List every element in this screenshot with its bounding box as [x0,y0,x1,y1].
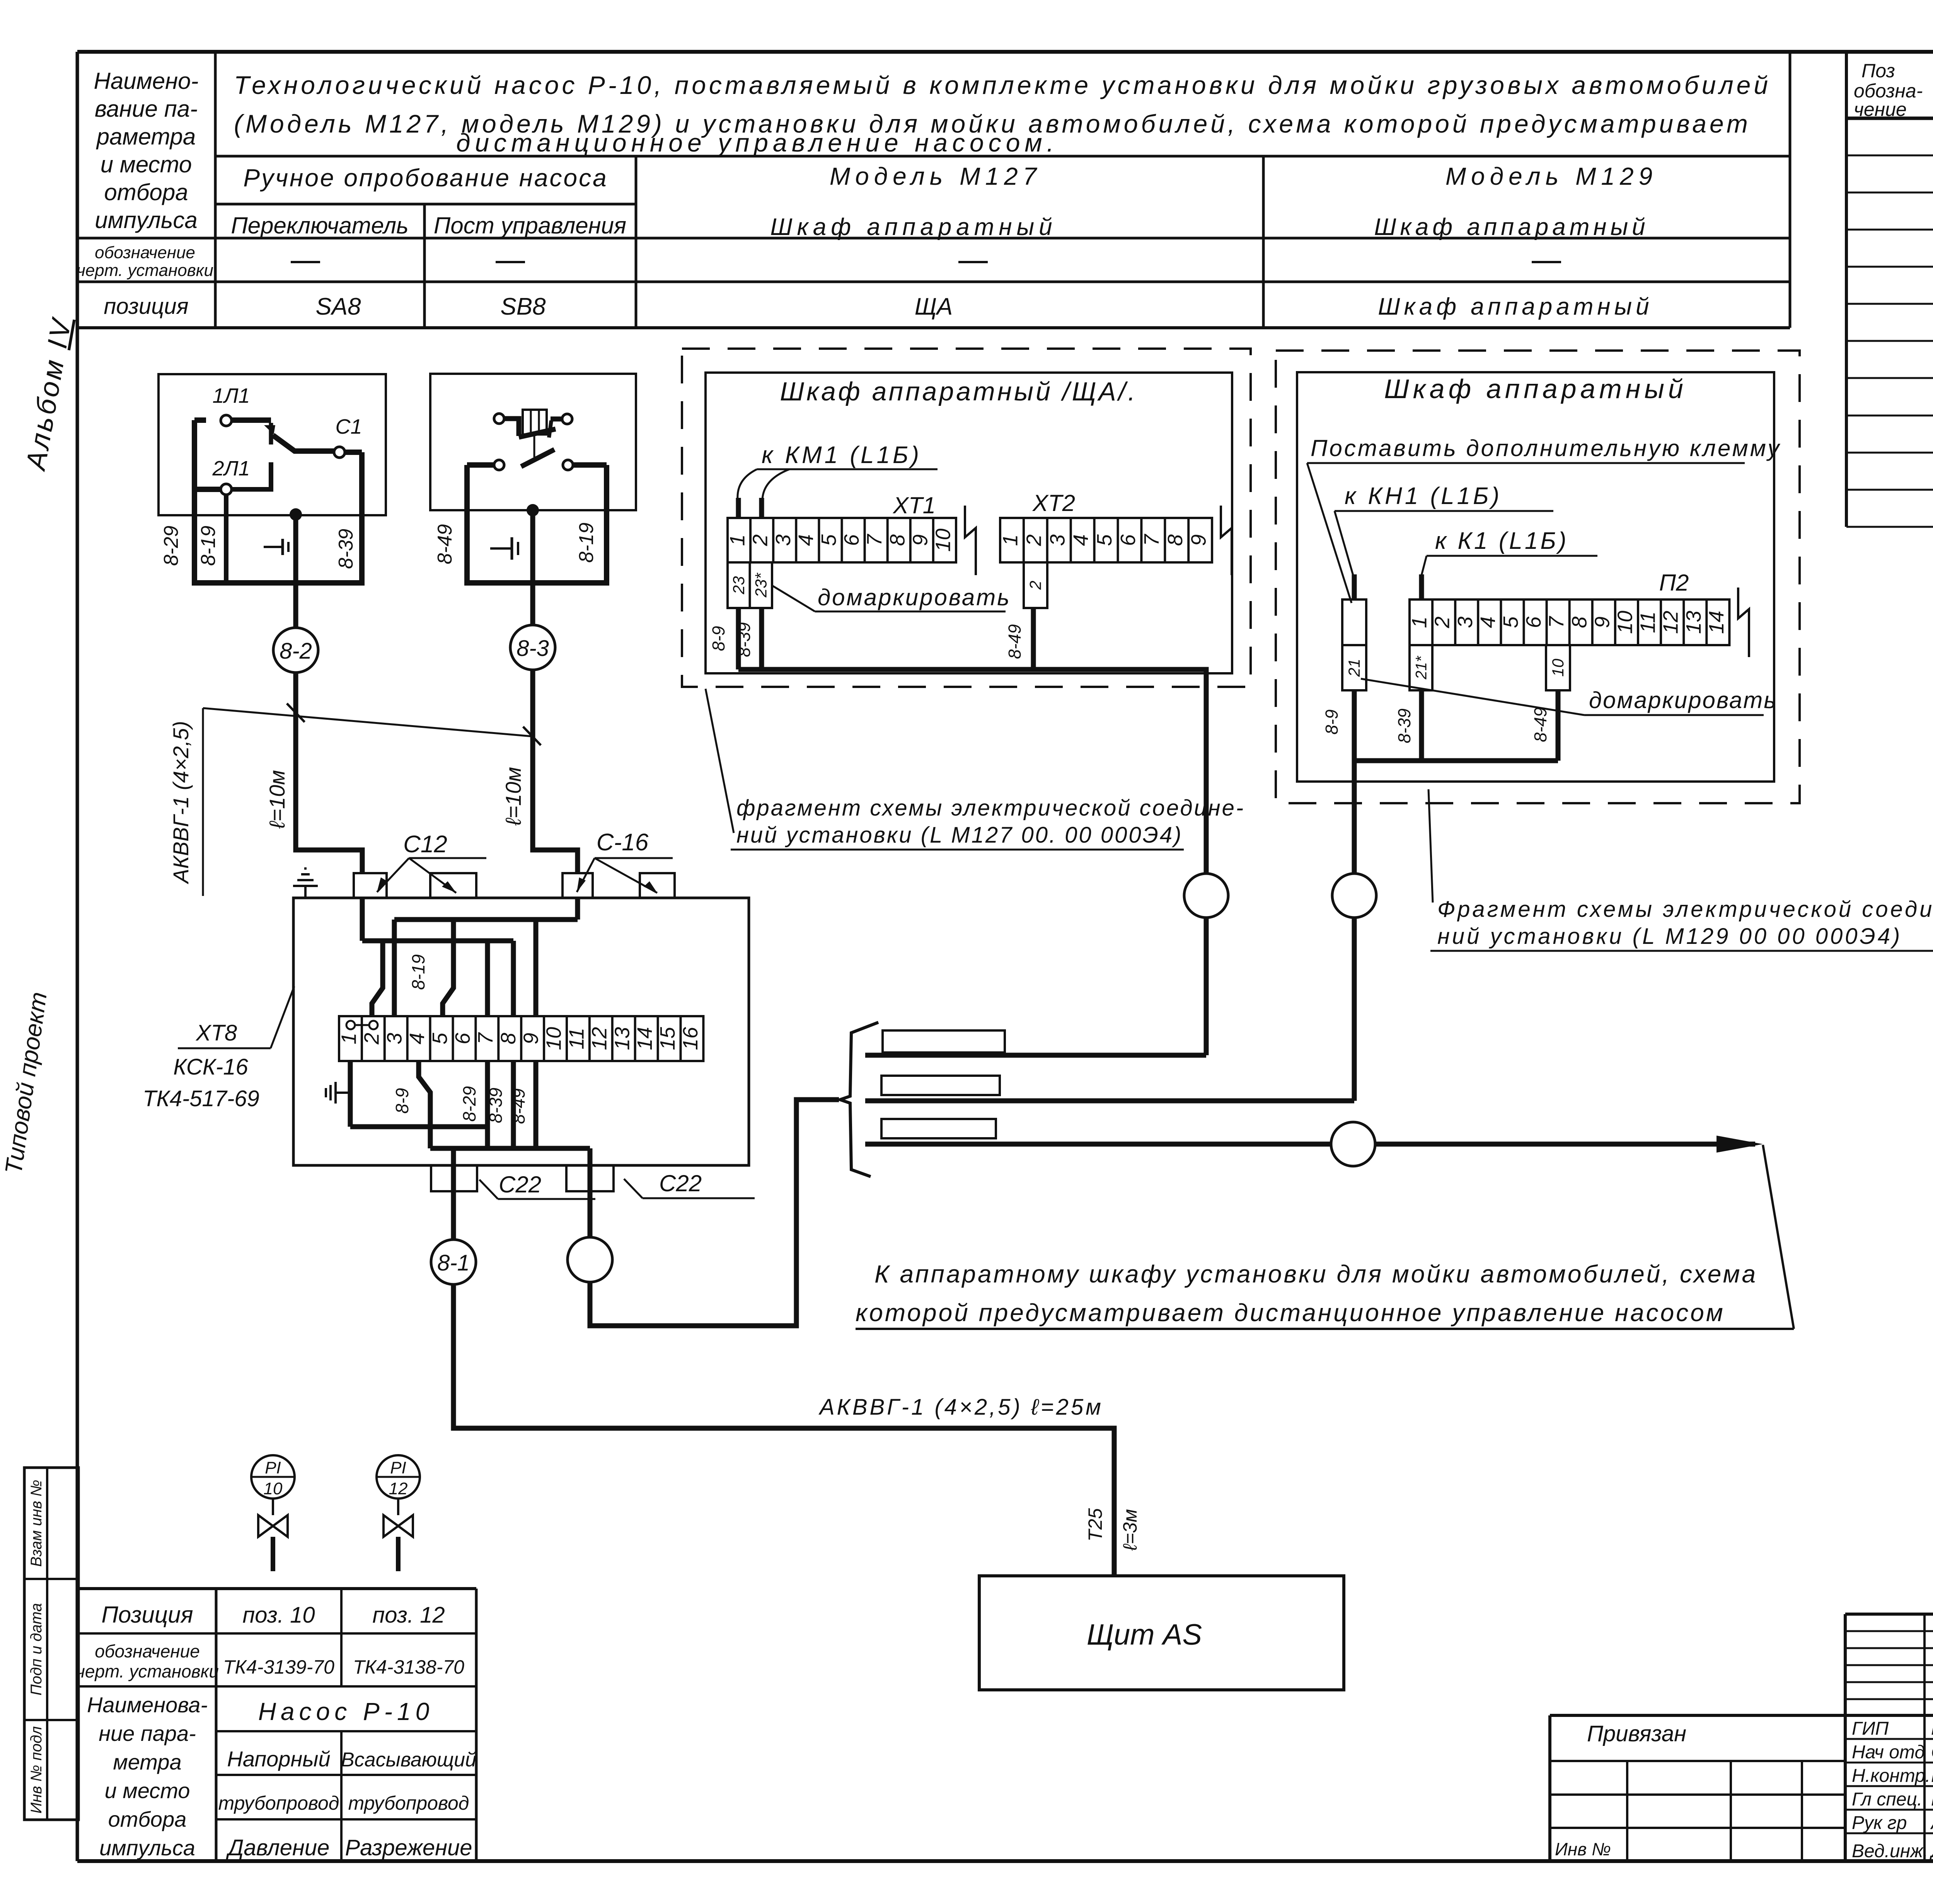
terminal box 10 [1546,645,1570,690]
svg-text:21*: 21* [1413,656,1430,680]
svg-text:отбора: отбора [108,1807,187,1831]
svg-text:ХТ2: ХТ2 [1032,490,1075,516]
svg-text:7: 7 [1140,534,1163,546]
wire 8-29 from XT8 cell 7 [485,1061,490,1148]
wire ShchA cable vertical [1204,918,1209,1055]
svg-text:4: 4 [406,1033,429,1044]
switch box SA8 outline [159,374,386,515]
svg-text:метра: метра [113,1750,181,1774]
svg-text:Рук гр: Рук гр [1852,1813,1907,1833]
terminal strip XT8 [337,1016,703,1061]
svg-text:8: 8 [497,1033,520,1044]
svg-text:трубопровод: трубопровод [348,1792,469,1814]
svg-text:Позиция: Позиция [101,1602,193,1628]
bus inside M129 [1354,758,1558,763]
svg-text:ГИП: ГИП [1852,1718,1889,1739]
svg-text:ТК4-3138-70: ТК4-3138-70 [353,1656,464,1678]
svg-text:АКВВГ-1 (4×2,5): АКВВГ-1 (4×2,5) [169,721,193,884]
terminal boxes 23 23* [728,562,772,608]
svg-text:ЩА: ЩА [915,293,953,320]
svg-text:С22: С22 [659,1170,702,1196]
wire cable 8-2 down [293,514,298,627]
svg-text:домаркировать: домаркировать [818,584,1011,610]
ground symbol in KSK [326,1082,350,1104]
svg-text:1: 1 [337,1033,360,1044]
svg-text:SВ8: SВ8 [500,293,546,320]
wire 8-49 from XT8 cell 9 [534,1061,539,1148]
connection box KSK-16 outline [293,898,749,1165]
svg-text:8: 8 [886,534,909,546]
svg-text:Инв №: Инв № [1555,1839,1611,1859]
svg-text:5: 5 [817,534,840,546]
strip XT1 break mark [965,506,976,575]
svg-text:Фрагмент схемы электрической: Фрагмент схемы электрической соедине- [1437,897,1933,922]
svg-text:обозначение: обозначение [95,1641,200,1661]
svg-text:трубопровод: трубопровод [218,1792,339,1814]
valve under PI 10 [258,1515,288,1571]
title block grid [1550,1614,1933,1861]
wire cable 8-1 [451,1194,456,1240]
svg-text:15: 15 [656,1027,679,1050]
svg-text:Пост управления: Пост управления [434,213,626,238]
svg-text:С-16: С-16 [597,829,649,856]
terminal strip XT1 [726,518,956,562]
wire 8-9 (ShchA) [736,608,741,669]
svg-text:12: 12 [389,1479,408,1498]
svg-text:9: 9 [1590,617,1614,628]
svg-text:раметра: раметра [96,124,196,150]
svg-text:Насос Р-10: Насос Р-10 [258,1698,434,1725]
svg-text:ТК4-3139-70: ТК4-3139-70 [223,1656,334,1678]
svg-text:10: 10 [1613,611,1636,634]
svg-text:2: 2 [1431,617,1454,628]
parts list table grid [1846,52,1933,527]
terminal box 2 under XT2 [1024,562,1047,608]
svg-text:3: 3 [772,534,795,546]
header table description paragraph [234,71,1771,157]
arrowhead at bus bar 3 end [1717,1136,1763,1153]
svg-text:6: 6 [1522,616,1545,628]
svg-text:14: 14 [633,1027,656,1050]
svg-text:Шкаф аппаратный: Шкаф аппаратный [1384,374,1687,404]
svg-text:8-19: 8-19 [197,526,220,566]
cabinet ShchA inner outline [706,373,1232,673]
svg-text:Шкаф аппаратный: Шкаф аппаратный [770,214,1057,240]
terminal strip XT2 [999,518,1212,562]
svg-text:Переключатель: Переключатель [231,213,408,238]
outlet bus in KSK [430,1146,590,1151]
svg-text:Наимено-: Наимено- [94,68,199,94]
wire down to gland C22 left [451,1148,456,1194]
svg-text:С1: С1 [335,415,362,438]
svg-text:23: 23 [730,576,748,595]
svg-text:Т25: Т25 [1084,1508,1106,1541]
svg-text:дистанционное управление нас: дистанционное управление насосом. [456,128,1059,157]
margin stamp boxes [24,1468,78,1820]
svg-text:16: 16 [679,1027,702,1050]
push button box SB8 outline [430,374,636,510]
instrument table texts [76,1602,476,1860]
svg-text:SА8: SА8 [315,293,361,320]
svg-text:8-39: 8-39 [1394,708,1414,743]
wires XT1 cells 1,2 stubs [738,498,762,518]
ground bus in KSK [350,1124,489,1129]
svg-text:С22: С22 [499,1172,541,1197]
svg-text:Подп и дата: Подп и дата [28,1603,45,1695]
svg-text:обозначение: обозначение [95,243,195,262]
svg-text:21: 21 [1345,659,1363,677]
svg-text:3: 3 [1046,534,1069,546]
wire 8-39 from XT8 cell 8 [511,1061,516,1148]
svg-text:1: 1 [726,534,749,546]
svg-text:к КН1 (L1Б): к КН1 (L1Б) [1345,483,1502,509]
svg-text:домаркировать: домаркировать [1589,687,1777,713]
svg-text:ℓ=10м: ℓ=10м [501,767,525,826]
svg-text:Ручное опробование насоса: Ручное опробование насоса [243,164,608,192]
svg-text:П2: П2 [1659,570,1689,596]
svg-text:Привязан: Привязан [1587,1721,1686,1746]
parts list headers [1854,60,1933,120]
svg-text:Вед.инж.: Вед.инж. [1852,1841,1928,1861]
svg-text:8-49: 8-49 [1531,707,1550,742]
ground symbol in SA8 [264,539,288,555]
cabinet M129 dashed outline [1276,351,1800,803]
bus bar 2 marker rect [881,1076,1000,1095]
pressure gauge PI 10 [251,1455,295,1515]
junction dot SB8 output [527,504,539,516]
svg-text:Кузнецов: Кузнецов [1931,1789,1933,1810]
svg-text:8-29: 8-29 [160,526,182,566]
terminal box 21 [1342,645,1366,690]
cable marker circle (ShchA cable) [1184,874,1228,918]
wire from XT8 cell 1 to ground bus [348,1061,353,1127]
svg-text:КСК-16: КСК-16 [173,1054,248,1080]
wire cable 8-3 to KSK box [533,670,578,872]
svg-text:8-1: 8-1 [437,1250,470,1276]
svg-text:8-29: 8-29 [459,1086,479,1122]
svg-text:Поставить дополнительную кле: Поставить дополнительную клемму [1311,435,1781,461]
svg-text:8-9: 8-9 [709,626,728,651]
svg-text:Напорный: Напорный [227,1747,330,1771]
svg-text:Всасывающий: Всасывающий [341,1749,476,1771]
switch SA8 internal wiring [194,420,362,583]
fragment note M129 [1428,789,1933,951]
cable type leader lines [203,703,541,896]
strip P2 break mark [1738,588,1749,657]
svg-text:11: 11 [1636,611,1660,633]
svg-text:импульса: импульса [95,207,198,233]
svg-text:2: 2 [1026,581,1045,590]
wire to distribution brace [588,1194,593,1237]
svg-text:23*: 23* [752,572,770,598]
junction dot SA8 output [290,508,302,521]
svg-text:которой предусматривает дист: которой предусматривает дистанционное уп… [856,1299,1725,1327]
svg-text:9: 9 [1187,534,1210,546]
callout KN1 underline + leader [1335,511,1553,575]
svg-text:8-19: 8-19 [575,523,598,563]
pressure gauge PI 12 [377,1455,420,1515]
svg-text:8: 8 [1164,534,1187,546]
svg-text:4: 4 [1476,617,1500,628]
wire M129 cable vertical [1352,918,1357,1101]
svg-text:2: 2 [360,1033,383,1045]
cable marker circle 8-2 [273,628,318,673]
svg-text:10: 10 [1549,659,1567,677]
svg-text:С12: С12 [403,831,447,858]
svg-text:Инв № подл: Инв № подл [28,1726,45,1814]
svg-text:ℓ=3м: ℓ=3м [1119,1509,1141,1551]
svg-text:Наименова-: Наименова- [87,1693,208,1717]
svg-text:к К1 (L1Б): к К1 (L1Б) [1435,528,1568,554]
cabinet M129 inner outline [1297,372,1774,782]
svg-text:8-3: 8-3 [516,636,549,661]
svg-text:поз. 10: поз. 10 [242,1603,315,1628]
terminal box 21* [1410,645,1432,690]
svg-text:9: 9 [520,1033,543,1044]
wire 8-39 (M129) [1419,690,1424,761]
svg-text:Взам инв №: Взам инв № [28,1480,45,1567]
svg-text:8-49: 8-49 [508,1088,528,1124]
valve under PI 12 [384,1515,413,1571]
svg-text:Н.контр.: Н.контр. [1852,1766,1930,1786]
svg-text:13: 13 [1682,611,1705,634]
bus inside ShchA [738,669,1206,873]
svg-text:8-49: 8-49 [434,524,456,564]
svg-text:11: 11 [565,1028,588,1049]
svg-text:6: 6 [1117,534,1140,546]
svg-text:Пивторак: Пивторак [1931,1718,1933,1739]
svg-text:5: 5 [428,1032,452,1044]
wire cable 8-3 down [530,510,535,625]
svg-text:1Л1: 1Л1 [212,384,250,407]
svg-text:1: 1 [1408,617,1431,628]
svg-text:10: 10 [542,1027,566,1050]
cable marker circle (unnumbered) [568,1237,612,1282]
push button SB8 internal wiring [467,465,607,583]
header table column captions [231,162,1657,240]
svg-text:Огурцов: Огурцов [1931,1742,1933,1763]
wire cable 8-2 to KSK box [296,673,362,872]
cable marker circle 8-3 [510,625,555,670]
panel Shchit AS box [979,1576,1344,1690]
header table position row values [315,293,1653,320]
svg-text:фрагмент схемы электрической: фрагмент схемы электрической соедине- [736,795,1245,821]
ground symbol at KSK top [293,869,318,898]
cabinet ShchA dashed outline [682,349,1251,687]
svg-text:позиция: позиция [104,294,188,319]
svg-text:8-39: 8-39 [486,1088,506,1123]
svg-text:черт. установки: черт. установки [77,261,213,280]
bus bar 3 (to remote cabinet) [865,1142,1755,1147]
gland callout C12 [377,831,486,893]
bus bar 3 marker rect [881,1119,996,1138]
svg-text:вание па-: вание па- [95,96,198,122]
cable marker circle 8-1 [431,1240,476,1284]
svg-text:10: 10 [931,528,955,552]
svg-text:ние пара-: ние пара- [99,1721,196,1746]
svg-text:8-49: 8-49 [1005,624,1024,659]
note underline and leader (ShchA) [773,586,1006,611]
svg-text:2: 2 [749,534,772,546]
callout KM1 underline and fork [738,469,938,499]
svg-text:Разрежение: Разрежение [345,1835,472,1860]
svg-text:Гл спец.: Гл спец. [1852,1789,1922,1810]
header table grid [77,52,1790,328]
svg-text:PI: PI [265,1458,281,1477]
bus bar 1 (to ShchA) [865,1053,1206,1058]
callout K1 underline + leader [1422,556,1597,575]
svg-text:Поз: Поз [1861,60,1895,82]
cable glands on top of KSK box [354,873,675,898]
note underline + leader (M129) [1361,679,1764,715]
svg-text:3: 3 [383,1033,406,1044]
svg-text:3: 3 [1454,617,1477,628]
svg-text:ТК4-517-69: ТК4-517-69 [143,1086,259,1111]
svg-text:ний установки (L М129 00 00 0: ний установки (L М129 00 00 000Э4) [1437,924,1902,949]
svg-text:12: 12 [1659,611,1682,634]
svg-text:13: 13 [610,1027,634,1050]
wire 8-49 (M129) [1556,690,1561,761]
svg-text:8-19: 8-19 [408,954,428,990]
gland label C22 right [624,1170,755,1198]
wire 8-9 (M129) [1352,690,1357,874]
svg-text:8: 8 [1568,617,1591,628]
svg-text:черт. установки: черт. установки [76,1661,219,1681]
svg-text:Давление: Давление [226,1835,330,1860]
svg-text:6: 6 [451,1032,474,1044]
wire 8-39 (ShchA) [759,608,764,669]
svg-text:12: 12 [588,1027,611,1050]
svg-text:7: 7 [863,534,886,546]
svg-text:9: 9 [909,534,932,546]
cable marker circle (M129 cable) [1332,874,1376,918]
svg-text:отбора: отбора [104,179,188,205]
svg-text:8-2: 8-2 [280,639,312,664]
KSK internal wiring from gland C-16 [394,898,578,1016]
svg-text:8-9: 8-9 [392,1088,412,1114]
wire down to gland C22 right [588,1148,593,1194]
svg-text:8-39: 8-39 [734,622,754,657]
svg-text:4: 4 [1069,534,1093,546]
cable glands at KSK bottom [431,1165,614,1191]
distribution brace [840,1022,878,1177]
push button SB8 symbol [467,410,607,470]
svg-text:4: 4 [794,534,818,546]
switch SA8 contacts [194,415,362,495]
svg-text:7: 7 [474,1032,497,1044]
wire 8-9 kinked from XT8 cell 4 [419,1061,430,1127]
gland label C22 left [479,1172,595,1199]
svg-text:Шкаф аппаратный /ЩА/.: Шкаф аппаратный /ЩА/. [780,377,1137,406]
instrument table grid [78,1589,476,1861]
clamp stub wires [1354,574,1422,599]
svg-text:10: 10 [264,1479,283,1498]
svg-text:14: 14 [1705,611,1728,634]
svg-text:Шкаф аппаратный: Шкаф аппаратный [1374,214,1649,240]
link ground bus to outlet bus [428,1127,433,1148]
wire cable 8-1 down to pipe T25 [453,1284,1114,1576]
bus bar 2 (to M129) [865,1098,1354,1104]
cable marker circle on bus 3 [1331,1122,1375,1166]
svg-text:Кузнецов: Кузнецов [1931,1766,1933,1786]
svg-text:1: 1 [999,534,1022,546]
svg-text:импульса: импульса [99,1836,195,1860]
svg-text:PI: PI [390,1458,406,1477]
svg-text:ХТ8: ХТ8 [195,1020,237,1046]
stamp roles and names [1852,1718,1933,1861]
svg-text:Модель М129: Модель М129 [1445,162,1657,190]
spare contact symbol in XT8 cells 1-2 [346,1021,378,1029]
svg-text:2Л1: 2Л1 [212,457,250,480]
svg-text:ℓ=10м: ℓ=10м [265,770,289,829]
svg-text:поз. 12: поз. 12 [372,1603,445,1628]
svg-text:8-9: 8-9 [1322,709,1342,734]
svg-text:Шкаф аппаратный: Шкаф аппаратный [1378,293,1653,320]
svg-text:и место: и место [105,1778,190,1803]
ground symbol in SB8 [490,537,518,560]
note underline + leader to clamp [1307,463,1745,603]
wire from circle to brace [590,1100,839,1326]
gland callout C-16 [577,829,673,893]
KSK internal wiring from gland C12 [362,898,513,1016]
svg-text:АКВВГ-1 (4×2,5) ℓ=25м: АКВВГ-1 (4×2,5) ℓ=25м [818,1395,1103,1420]
project area labels [1555,1721,1686,1859]
fragment note M127 [706,689,1245,850]
svg-text:2: 2 [1022,534,1045,546]
additional clamp box [1342,599,1366,645]
svg-text:5: 5 [1499,616,1522,628]
svg-text:7: 7 [1545,616,1568,628]
svg-text:и место: и место [101,152,192,177]
svg-text:5: 5 [1093,534,1116,546]
svg-text:к КМ1 (L1Б): к КМ1 (L1Б) [762,442,922,468]
svg-text:8-39: 8-39 [335,529,357,569]
terminal strip P2 [1408,599,1730,645]
svg-text:Нач отд: Нач отд [1852,1742,1925,1763]
strip XT2 break mark [1221,506,1232,575]
svg-text:ХТ1: ХТ1 [892,492,936,518]
svg-text:Модель М127: Модель М127 [830,162,1042,190]
wire 8-49 (ShchA) [1031,608,1036,669]
svg-text:К аппаратному шкафу установк: К аппаратному шкафу установки для мойки … [874,1260,1757,1288]
header table row labels [77,68,213,319]
svg-text:6: 6 [840,534,863,546]
bus bar 1 marker rect [883,1030,1005,1052]
header table dash row [291,261,1561,263]
note to remote apparatus cabinet [856,1145,1794,1329]
svg-text:Щит АS: Щит АS [1087,1618,1202,1651]
svg-text:ний установки (L М127 00. 00: ний установки (L М127 00. 00 000Э4) [736,823,1183,848]
svg-text:чение: чение [1854,99,1907,120]
box label XT8 / KSK-16 / TK4-517-69 [143,986,294,1111]
svg-text:Технологический насос Р-10, п: Технологический насос Р-10, поставляемый… [234,71,1771,99]
